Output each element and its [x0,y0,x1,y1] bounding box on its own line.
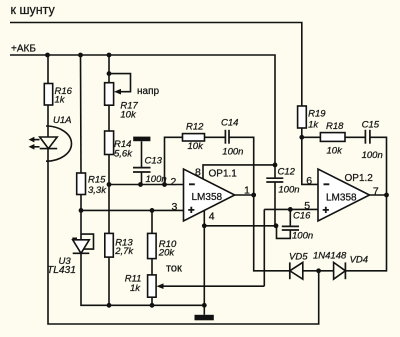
wire: +АКБ bus [10,55,275,165]
svg-text:2,7k: 2,7k [114,246,134,257]
svg-text:R15: R15 [88,175,106,186]
resistor R16 [44,84,52,106]
node: R17 wiper tie [107,71,112,76]
resistor R14 [105,131,114,155]
diode VD5 [289,262,291,279]
optocoupler U1A emission arrow 2 [32,146,40,148]
op-amp OP1.1 minus sign [189,183,195,185]
node: pin2/feedback junction [162,182,167,187]
svg-text:ток: ток [166,262,182,274]
svg-text:10k: 10k [120,110,137,121]
wire: LED cathode down to bottom bus [48,149,319,324]
svg-text:8: 8 [195,167,201,179]
svg-text:1N4148: 1N4148 [313,250,347,261]
wire: R17 to R14 [108,105,110,131]
node: pin4 gnd junction [202,223,207,228]
wire: R11 to ground net [151,297,153,305]
potentiometer R17 wiper arrow [114,89,121,95]
TL431 cathode bar [73,252,90,254]
svg-text:1k: 1k [308,119,319,130]
resistor R10 [148,233,157,258]
wire: C16 bottom hook to gnd [277,226,291,239]
svg-text:1k: 1k [55,95,66,106]
wire: VD5 to common node [303,270,334,272]
wire: R16 to LED [47,105,49,137]
wire: OP1.1 output to VD5 [254,195,290,271]
wire: R14 to pin2 net [108,155,110,185]
resistor R12 [183,134,205,141]
wire: OP1.1 output [235,194,254,196]
wire: VD4 to OP1.2 output [345,195,386,271]
svg-text:OP1.2: OP1.2 [345,173,374,184]
node: pin2/C13 junction [138,182,143,187]
svg-text:VD5: VD5 [289,251,308,262]
wire: C14 to output column [229,137,254,195]
wire: R15 to pin3 net [80,195,82,211]
wire: gnd line pin4 to C12/C16 [204,225,276,227]
capacitor C15 [364,130,366,144]
capacitor C12 [274,165,276,178]
svg-text:5: 5 [304,200,310,212]
wire: bus to R17 [108,55,110,83]
svg-text:5,6k: 5,6k [114,149,133,160]
svg-text:LM358: LM358 [192,192,223,203]
wire: R18 to C15 [345,136,365,138]
op-amp OP1.1 [184,169,235,221]
wire: pin3 net to TL431 [80,210,82,239]
op-amp OP1.2 plus sign [323,207,329,213]
wire: junction to R18 [302,136,321,138]
TL431 ref hook [81,234,94,249]
wire: TL431 anode to ground net [81,253,204,305]
svg-text:R12: R12 [186,121,204,132]
resistor R13 [105,233,114,257]
node: ground/pin4 [202,303,207,308]
wire: bus to R16 [47,55,49,84]
svg-text:10k: 10k [327,145,344,156]
resistor R19 [298,106,307,128]
wire: R19 to R18 junction [301,128,303,137]
node: diode common [316,268,321,273]
node: OP1.2 output junction [384,193,389,198]
op-amp OP1.2 [318,169,370,221]
op-amp OP1.2 minus sign [324,183,330,185]
capacitor C16 [289,209,291,226]
node: V+ / C12 junction [273,163,278,168]
node: OP1.1 output junction [251,193,256,198]
node: ground/R11 [150,303,155,308]
node: C12/C16 gnd junction [274,223,279,228]
svg-text:LM358: LM358 [326,192,357,203]
svg-text:4: 4 [209,211,215,223]
svg-text:100n: 100n [222,146,243,157]
svg-text:+АКБ: +АКБ [11,44,36,55]
wire: pin6 [302,137,318,184]
potentiometer R11 wiper arrow [161,285,264,287]
svg-text:100n: 100n [278,185,299,196]
op-amp OP1.1 plus sign [188,207,194,213]
node: bus junction R17 [107,53,112,58]
wire: feedback riser [165,137,183,184]
wire: pin3 net to R10 [151,210,153,233]
wire: R17 wiper hook [109,74,131,92]
wire: pin5 net [264,208,318,210]
wire: R13 column through pin3 net [108,185,110,234]
capacitor C14 [224,130,226,144]
svg-text:20k: 20k [158,247,176,258]
node: ground/R13 [107,303,112,308]
wire: R11 wiper to pin 5 riser [263,209,265,286]
svg-text:U1A: U1A [53,115,71,126]
node: pin3/R10 junction [150,208,155,213]
TL431 bar bend [72,238,76,240]
wire: ground stem [203,305,205,315]
svg-text:VD4: VD4 [350,254,368,265]
shunt regulator U3 TL431 [73,240,90,254]
ground bar [195,315,214,321]
svg-text:3: 3 [172,201,178,213]
capacitor C13 top bar terminal [133,137,150,142]
wire: R13 to ground net [108,257,110,305]
node: bus junction R16 [45,53,50,58]
wire: OP1.2 output [370,194,387,196]
wire: pin3 net [81,209,184,211]
svg-text:2: 2 [171,176,177,188]
node: bus junction R15 [78,53,83,58]
svg-text:3,3k: 3,3k [88,185,107,196]
svg-text:R18: R18 [326,121,344,132]
diode VD4 [334,262,346,279]
svg-text:C15: C15 [362,120,380,131]
optocoupler U1A envelope arc [46,126,71,161]
node: R19/R18/pin6 junction [299,135,304,140]
wire: pin 4 down [203,211,205,306]
node: pin2/R14/R13 junction [107,182,112,187]
svg-text:100n: 100n [292,230,313,241]
capacitor C13 [141,141,143,167]
svg-text:TL431: TL431 [47,265,76,276]
svg-text:6: 6 [306,175,312,187]
node: pin5/C16 junction [288,207,293,212]
svg-text:к шунту: к шунту [11,3,56,17]
wire: C15 to output column [370,137,387,195]
wire: к шунту net to R19 [10,23,302,107]
svg-text:OP1.1: OP1.1 [209,169,238,180]
svg-text:C13: C13 [145,156,163,167]
svg-text:1k: 1k [130,283,141,294]
optocoupler U1A LED cathode bar [40,148,58,150]
svg-text:C14: C14 [221,118,238,129]
wire: R10 to R11 [151,259,153,275]
svg-text:C12: C12 [278,166,296,177]
resistor R18 [320,133,345,142]
svg-text:100n: 100n [362,150,383,161]
potentiometer R11 [148,275,157,297]
wire: bus to R15 [80,55,83,173]
resistor R15 [77,173,86,195]
svg-text:10k: 10k [188,141,205,152]
wire: pin2 net [109,184,184,186]
potentiometer R17 [105,83,114,106]
node: pin3/R15 junction [79,208,84,213]
optocoupler U1A emission arrow 1 [32,139,40,141]
optocoupler U1A LED triangle [40,137,58,149]
wire: pin 8 to V+ [203,165,275,179]
svg-text:R19: R19 [308,109,326,120]
svg-text:напр: напр [137,86,159,97]
wire: R12 to C14 [205,136,226,138]
